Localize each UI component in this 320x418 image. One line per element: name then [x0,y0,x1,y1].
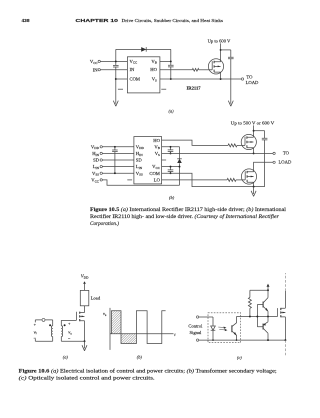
wire HO to gate resistor [160,69,193,71]
wire VSS [102,172,133,174]
supply stub under label [252,125,254,130]
terminal VSS [100,172,102,174]
wire bottom drain to load terminal [254,162,273,172]
wire COM line [162,173,254,186]
node resistor junction [249,316,251,318]
wire VCC bypass vertical [170,167,172,174]
terminal Vcc [98,60,100,62]
wire bus vertical [254,131,265,187]
svg-text:SD: SD [136,158,143,163]
svg-text:vi: vi [34,329,37,335]
wire resistor to gate [199,69,212,71]
terminal control top [196,316,198,318]
wire COM pin to left vertical [116,78,128,80]
diode D2 bootstrap vertical [179,147,181,186]
node VSS junction [114,172,116,174]
supply arrow VCC [267,286,269,290]
svg-text:IN: IN [130,67,136,72]
node top rail [253,130,255,132]
svg-text:COM: COM [149,171,159,176]
svg-text:Load: Load [91,295,101,300]
wire load to drain [80,306,85,313]
transistor Q3 bottom MOSFET [241,169,256,184]
svg-text:VCC: VCC [91,178,100,184]
wire top source to switch node [253,148,255,154]
wire control bottom common rail [199,339,285,341]
svg-text:VCC: VCC [152,164,161,170]
svg-text:VCC: VCC [90,59,99,65]
svg-text:CHAPTER 10: CHAPTER 10 [75,18,119,23]
transistor Q2 top MOSFET [241,134,256,149]
wire to top gate [237,144,245,146]
terminal control bottom [196,339,198,341]
ground bottom [251,187,256,197]
wire LIN [102,166,133,168]
light arrow 1 [218,326,224,329]
node bottom junction [253,186,255,188]
wire collector to rail [267,290,269,297]
wire left vertical Vcc rail [115,49,117,103]
node phototransistor emitter junction [236,339,238,341]
svg-text:VSS: VSS [92,171,99,177]
svg-text:Signal: Signal [190,330,202,335]
node VCC junction [170,166,172,168]
capacitor C1 plates [113,65,119,67]
svg-text:LOAD: LOAD [279,159,292,164]
svg-text:VSS: VSS [136,171,143,177]
IC box U2 IR2110 [134,137,162,184]
wire source [220,72,222,79]
svg-text:LIN: LIN [93,164,100,170]
transformer T1 secondary [60,320,62,341]
node base junction [256,316,258,318]
svg-text:HIN: HIN [136,151,143,157]
wire primary top [35,319,52,321]
svg-text:VDD: VDD [91,144,100,150]
optocoupler dashed box [208,313,241,343]
wire rail to bus [254,130,265,132]
wire control top [199,316,213,318]
terminal HIN [100,152,102,154]
svg-text:Figure 10.5 (a) International: Figure 10.5 (a) International Rectifier … [90,208,287,213]
node primary polarity dot [49,324,51,326]
transistor Q6 NPN [262,302,264,308]
svg-text:(c): (c) [237,355,242,360]
wire VCC pin [162,166,180,168]
resistor R3 bottom gate [227,178,236,181]
wire base vertical [256,305,258,327]
svg-text:COM: COM [130,77,140,82]
svg-text:Up to 600 V: Up to 600 V [208,38,231,43]
transistor Q1 MOSFET [208,59,223,74]
svg-text:VS: VS [152,77,157,83]
svg-text:LO: LO [154,177,161,182]
supply stub under label [220,43,222,50]
wire VS line to load terminal [160,78,241,80]
wire drain to rail [220,50,222,62]
unused pin stub bottom-right [161,88,166,90]
wire drain dashed continuation [284,273,286,291]
resistor R4 [248,298,251,309]
node VS junction [170,78,172,80]
ground right [228,101,233,107]
phototransistor Q5 [231,325,233,332]
svg-text:(a): (a) [63,355,69,360]
transistor Q7 PNP [262,324,264,330]
supply rail top [250,290,268,297]
wire PNP collector to rail [267,333,269,340]
unused pin stub left [127,179,132,181]
wire SD [102,159,133,161]
svg-text:Rectifier IR2110 high- and low: Rectifier IR2110 high- and low-side driv… [90,215,279,220]
terminal LIN [100,165,102,167]
svg-text:VCC: VCC [130,59,139,65]
hatched area negative [121,334,136,344]
axis horizontal t [110,333,174,335]
svg-text:HIN: HIN [92,151,99,157]
wire VS line to switch node [162,152,254,154]
wire top drain to rail [253,131,255,138]
capacitor C4 plates [112,150,118,152]
wire LO to resistor [162,179,227,181]
svg-text:VDD: VDD [136,144,145,150]
input port stubs [34,320,36,341]
wire bootstrap vertical [170,49,172,79]
wire source dashed continuation [284,340,286,356]
capacitor C2 bootstrap plates [168,65,174,67]
wire rail to bus cap [221,49,231,51]
wire VB pin [162,146,180,148]
unused pin stub right [162,159,167,161]
resistor R1 gate [192,68,198,71]
wire emitter to output [267,311,269,316]
terminal VDD [100,146,102,148]
ground left [113,101,118,107]
svg-text:HO: HO [150,67,157,72]
waveform square wave [112,311,166,344]
svg-text:TO: TO [246,74,253,79]
svg-text:SD: SD [93,158,100,163]
svg-text:VB: VB [151,59,157,65]
terminal VCC [100,179,102,181]
node drain rail [220,49,222,51]
node supply junction [267,289,269,291]
wire VCC routed under IC [102,180,179,185]
svg-text:VS: VS [155,151,160,157]
wire base drive line [237,316,278,318]
wire top rail Vcc to diode to VB [116,48,171,50]
wire gate line from secondary [61,319,76,321]
capacitor C6 plates [168,170,174,172]
wire right vertical bus [230,50,232,104]
svg-text:LOAD: LOAD [246,80,259,85]
node output junction [267,316,269,318]
connector circle on primary wire [42,318,45,321]
IC box U1 IR2117 [127,57,159,93]
svg-text:Control: Control [188,323,203,328]
svg-text:Corporation.): Corporation.) [90,222,119,227]
terminal LOAD [273,161,275,163]
node PNP collector junction [267,339,269,341]
svg-text:IN: IN [93,67,99,72]
terminal IN [98,69,100,71]
svg-text:LIN: LIN [136,164,143,170]
node source junction [284,339,286,341]
wire switch node to terminal [254,152,273,154]
node secondary polarity dot [64,324,66,326]
node VB junction [170,60,172,62]
wire source down [84,321,86,342]
node VDD junction [114,146,116,148]
transformer T1 primary [52,320,54,341]
node VB junction [170,146,172,148]
resistor R2 top gate [228,144,237,147]
node COM junction [170,172,172,174]
wire source down [284,317,286,340]
supply arrow [83,281,86,284]
svg-text:HO: HO [153,138,160,143]
wire Vcc to IC [100,60,127,62]
svg-text:(b): (b) [169,195,175,200]
node source junction [84,340,86,342]
svg-text:IR2117: IR2117 [187,85,202,90]
diode D1 bootstrap [141,47,146,52]
light arrow 2 [219,328,225,331]
transistor Q4 MOSFET [76,312,84,322]
node Vcc junction [115,60,117,62]
terminal TO LOAD [241,78,243,80]
wire to bottom gate [236,179,245,181]
wire primary bottom [35,340,52,342]
svg-text:438: 438 [22,18,30,24]
svg-text:(a): (a) [168,108,174,113]
wire bootstrap cap vertical [170,147,172,154]
capacitor C5 bootstrap plates [168,150,174,152]
resistor Load box [80,290,89,305]
unused pin stub bottom-left [118,88,123,90]
terminal SD [100,159,102,161]
svg-text:Up to 500 V or 600 V: Up to 500 V or 600 V [231,121,275,126]
node diode VCC junction [179,166,181,168]
svg-text:VB: VB [154,144,160,150]
wire drain up [284,291,286,308]
svg-text:(c) Optically isolated control: (c) Optically isolated control and power… [19,377,155,382]
svg-text:VDD: VDD [81,274,89,280]
capacitor C3 bus plates [228,57,234,59]
capacitor C7 bus plates [262,138,268,140]
wire VB pin to bootstrap [160,60,171,62]
node VS junction [170,152,172,154]
wire HO with step [162,140,228,145]
wire bottom source [253,182,255,186]
wire HIN [102,152,133,154]
node LED cathode junction [212,339,214,341]
transistor Q8 power MOSFET [278,308,286,317]
wire PNP emitter from output [267,317,269,322]
wire secondary bottom [61,340,84,342]
terminal TO [273,152,275,154]
wire resistor to base node [249,308,251,316]
axis vertical [109,308,111,350]
hatched area positive [112,311,122,334]
LED D3 [212,317,214,340]
node COM junction [115,78,117,80]
wire left bypass vertical [114,147,116,173]
wire IN to IC [100,69,127,71]
wire VDD [102,146,133,148]
svg-text:(b): (b) [137,355,143,360]
ground [82,341,87,351]
node switch junction [253,152,255,154]
svg-text:TO: TO [283,151,290,156]
node source junction [220,78,222,80]
svg-text:Figure 10.6 (a) Electrical is: Figure 10.6 (a) Electrical isolation of … [19,370,277,375]
